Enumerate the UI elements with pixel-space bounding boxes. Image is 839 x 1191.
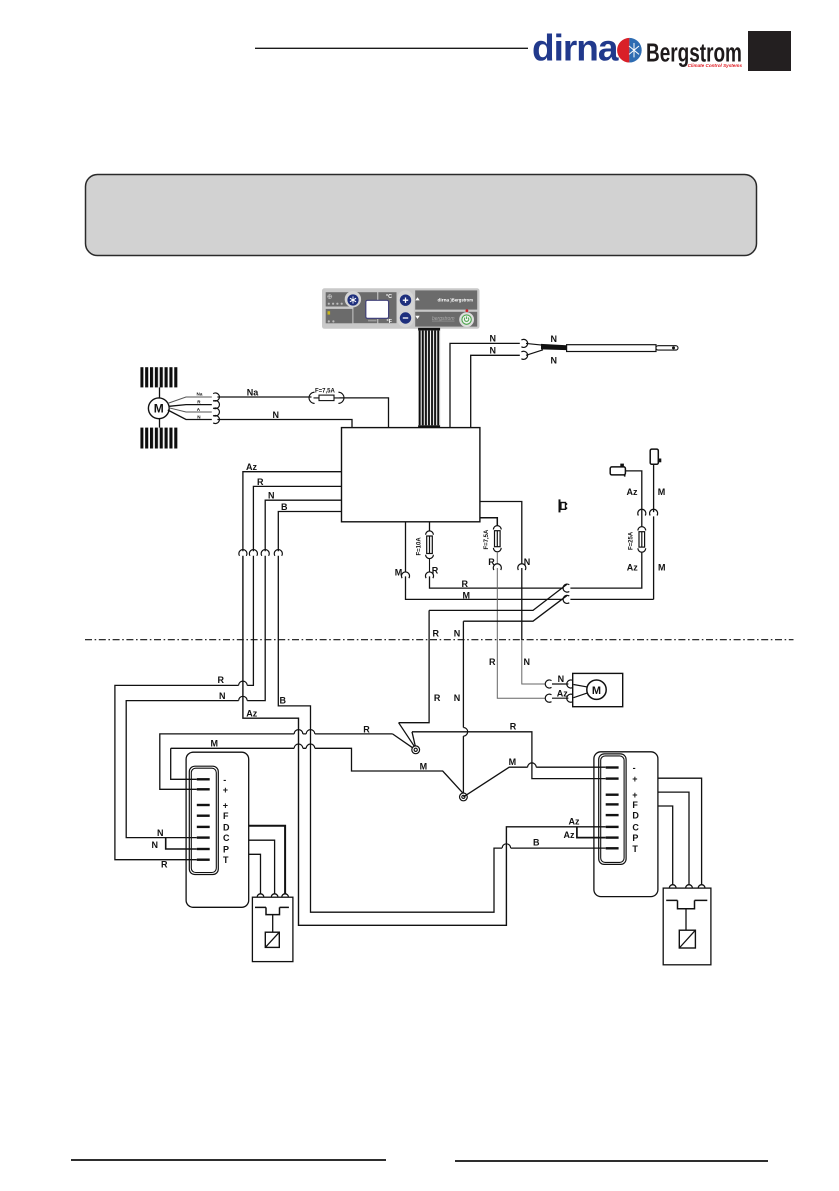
connector B [274,550,282,556]
junction ring 1 [412,746,420,754]
temperature probe tip [656,346,678,350]
svg-text:N: N [157,828,164,838]
wire N sensor lower [471,355,520,427]
wire M branch to right block [463,767,605,797]
svg-text:N: N [524,657,531,667]
wire M1 N lead [168,410,212,420]
connector hook sensor wire2 [521,351,527,359]
wire B from control unit [278,512,341,552]
hop B over Az riser [502,844,511,848]
wire N sensor upper [450,343,520,427]
svg-text:dirna: dirna [532,28,619,69]
wire B down around to right block T [278,556,605,912]
connector pair Az at condenser [545,694,573,702]
wire N cab riser to junction 2 [462,621,464,794]
panel plus-minus pill [397,290,414,327]
svg-text:N: N [219,691,226,701]
svg-text:R: R [218,675,225,685]
wire left block to relay t2 [249,840,275,894]
hop N over R branch [463,728,467,737]
svg-text:Az: Az [569,817,580,827]
wire R down and to left block T [115,556,254,860]
hop R over Az [239,681,248,685]
junction ring 2 [460,793,468,801]
ribbon cable bottom ferrule [418,425,440,428]
wire R arrow diagonal 1 [399,723,415,748]
svg-text:M: M [211,739,219,749]
left terminal block body [186,752,249,907]
svg-text:R: R [489,657,496,667]
blower motor shaft wires [159,387,161,398]
wire left block to relay t1 [249,854,261,894]
left block pins [197,778,210,861]
right relay terminal 3 [698,885,705,888]
ribbon cable [418,331,440,426]
condenser motor box [573,673,623,706]
right relay contact [666,900,707,908]
svg-text:Az: Az [246,708,257,718]
svg-text:P: P [223,845,229,855]
wire R from control unit [253,486,341,551]
thermal switch icon [610,464,625,477]
left terminal strip [189,766,218,874]
panel up triangle [415,297,419,300]
svg-text:T: T [632,844,638,854]
left relay terminal 2 [271,894,278,897]
panel fan icon [327,294,332,299]
svg-text:Climate Control Systems: Climate Control Systems [688,63,743,68]
connector R2 [493,564,501,570]
footer rule left [71,1159,386,1161]
svg-text:N: N [524,557,531,567]
wire N blower to box [217,420,352,428]
fuse F1 7,5A [309,392,344,403]
svg-text:Az: Az [564,830,575,840]
svg-text:M: M [509,757,516,767]
wire M from box bottom [405,522,407,572]
left block pin labels [223,775,230,865]
svg-text:A: A [197,407,201,412]
svg-text:M: M [154,402,164,416]
connector M riser [650,509,658,515]
right relay coil [679,930,695,948]
wire right block to relay t2 [658,792,689,885]
connector pair feed R to Az [563,584,569,592]
control panel faceplate [322,288,480,329]
hop M over R riser [528,763,537,767]
svg-text:F: F [632,800,638,810]
svg-text:M: M [658,562,666,572]
connector R below fuse [425,572,433,578]
svg-text:N: N [454,693,461,703]
hop R over Az riser [294,730,303,734]
condenser motor M2 [587,680,606,699]
sensor lead converge bottom [526,350,543,356]
panel display window [366,300,389,318]
left relay box [252,897,293,961]
wire M horizontal from pair [570,598,653,600]
svg-text:N: N [551,356,558,366]
hop M over Az riser [294,744,303,748]
header rule [255,47,528,49]
svg-text:R: R [161,860,168,870]
right terminal block body [594,752,658,897]
wire M1 Na lead [168,397,212,403]
svg-text:B: B [281,502,288,512]
svg-text:Az: Az [627,487,638,497]
wire N2 down to condenser [521,568,523,640]
control unit box [342,428,480,522]
connector N [261,550,269,556]
svg-text:F: F [223,811,229,821]
svg-text:R: R [510,722,517,732]
hop R over B riser [306,730,315,734]
wire Az up to fuse F4 [570,552,641,588]
wire R2 below fuse [496,552,498,564]
wire M1 R lead [169,405,212,407]
connector R [249,550,257,556]
wire N down and to left block C [126,556,265,838]
svg-text:F=7,5A: F=7,5A [484,529,490,550]
wire Az from control unit [243,472,342,552]
footer rule right [455,1160,768,1162]
wire R to fuse F2 [429,522,431,531]
connector pair N at condenser [545,680,573,688]
panel minus button [400,312,411,323]
svg-text:R: R [488,557,495,567]
right terminal strip [599,754,626,865]
svg-text:N: N [490,334,497,344]
blower motor M1 [148,398,169,419]
svg-text:+: + [632,790,637,800]
wire N from control unit [265,500,341,551]
wire M up to hp switch [653,464,655,599]
condenser motor leads [552,684,589,698]
blower resistor grid top [140,367,179,387]
wire Na to fuse [217,396,311,398]
connector hook R [213,401,219,409]
panel red led [466,309,469,312]
wire Na fuse to box [340,398,389,428]
left relay stem [272,915,274,933]
wire R cab riser [399,610,430,722]
svg-text:R: R [433,628,440,638]
plug icon [559,499,568,512]
blower resistor grid bottom [140,428,179,449]
right relay terminal 1 [669,885,676,888]
wire left block D to relay t3 [249,826,285,894]
left relay coil [265,932,279,947]
right relay terminal 2 [686,885,693,888]
svg-text:D: D [223,822,230,832]
svg-text:R: R [434,693,441,703]
svg-text:D: D [632,811,639,821]
svg-text:°F: °F [387,319,393,325]
connector hook sensor wire1 [521,339,527,347]
fuse F4 25A [638,527,646,553]
chassis divider dash-dot line [85,639,794,641]
svg-text:B: B [280,696,287,706]
wire R branch to right block [412,732,606,779]
wire R to connector pair [430,576,564,588]
panel plus button [400,295,411,306]
fuse F3 7,5A [493,526,501,552]
jog diagonal R [429,584,567,610]
wire R2 down to condenser Az [497,568,545,698]
hp switch icon [650,449,661,464]
connector hook Na [213,393,219,401]
svg-text:Az: Az [557,689,568,699]
panel down triangle [415,316,419,319]
fuse F2 10A [426,531,434,559]
right block pin labels [632,763,639,854]
hop M over B riser [306,744,315,748]
svg-text:T: T [223,855,229,865]
right block pins [606,766,619,849]
connector N2 [518,564,526,570]
right relay stem [685,909,687,931]
svg-text:N: N [273,410,280,420]
left relay terminal 1 [257,894,264,897]
jog diagonal N [463,596,566,622]
svg-text:M: M [420,761,428,771]
grey note box [86,175,757,256]
sensor lead converge top [526,343,543,345]
wire Az up to pressure switch [625,471,641,527]
right relay box [663,888,711,965]
svg-text:M: M [463,590,471,600]
svg-text:M: M [395,568,403,578]
svg-text:N: N [197,414,201,419]
svg-text:M: M [592,685,601,697]
wire N branch to pin P [166,838,197,849]
wire M to connector pair [406,576,564,599]
svg-text:R: R [432,565,439,575]
svg-text:F=7,5A: F=7,5A [315,389,336,395]
panel yellow indicator [328,311,331,314]
wire right block to relay t1 [658,806,673,885]
svg-text:N: N [490,346,497,356]
left relay terminal 3 [282,894,289,897]
svg-text:R: R [257,477,264,487]
svg-text:-: - [223,775,226,785]
svg-text:Na: Na [247,387,259,397]
svg-text:N: N [268,491,275,501]
svg-text:F=25A: F=25A [629,531,635,550]
svg-text:°C: °C [386,294,392,300]
svg-text:Az: Az [246,462,257,472]
connector Az [239,550,247,556]
svg-text:B: B [533,837,540,847]
svg-text:-: - [633,763,636,773]
svg-text:Az: Az [627,562,638,572]
wire R below fuse F2 [429,559,431,573]
temperature probe tip dot [672,346,675,349]
svg-text:R: R [462,579,469,589]
svg-text:R: R [363,725,370,735]
svg-text:+: + [223,801,228,811]
panel power button [459,312,474,327]
wire R2 from box right to fuse F3 [480,518,497,526]
svg-text:F=10A: F=10A [416,537,422,556]
svg-text:C: C [632,822,639,832]
hop N over Az [239,696,248,700]
ribbon cable top ferrule [418,328,440,331]
panel lower dots [328,320,335,322]
wire Az down to chassis [243,556,606,926]
temperature probe body [567,345,656,352]
wire M feed left [171,748,464,793]
svg-text:N: N [152,840,159,850]
wire Az branch to pin P [577,827,606,838]
svg-text:bergstrom: bergstrom [432,316,455,322]
sensor cable wedge [541,344,567,350]
logo circle [617,38,642,63]
connector Az riser [638,509,646,515]
svg-text:R: R [197,399,201,404]
wire right block to relay t3 [658,778,702,885]
panel led dots row [328,303,343,305]
connector hook N [213,415,219,423]
wire R feed to left block [160,734,413,789]
wire N2 from box right [480,502,522,565]
svg-text:C: C [223,833,230,843]
svg-text:N: N [454,628,461,638]
svg-text:+: + [632,774,637,784]
panel display caption [368,320,377,322]
svg-text:N: N [558,674,565,684]
svg-text:M: M [658,487,666,497]
connector pair feed M to M [563,595,569,603]
panel snowflake button [345,291,361,307]
left relay contact [255,907,289,914]
svg-text:+: + [223,785,228,795]
svg-text:Na: Na [197,392,203,397]
connector hook A [213,408,219,416]
connector M [401,572,409,578]
wire R arrow diagonal 2 [412,732,415,747]
svg-text:P: P [632,833,638,843]
black corner block [748,31,791,71]
wire M1 A lead [169,408,212,412]
svg-text:N: N [551,334,558,344]
